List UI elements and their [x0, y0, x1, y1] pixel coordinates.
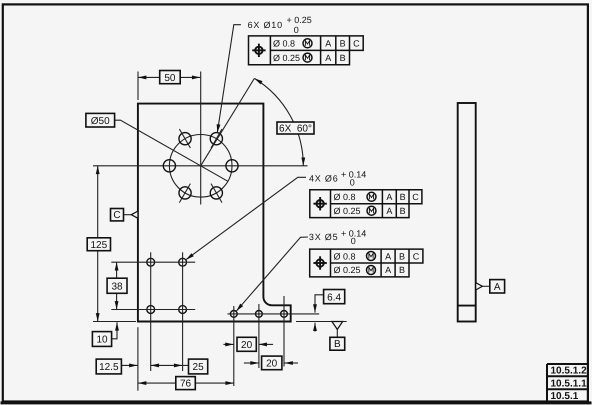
dimension 25 [151, 364, 183, 366]
svg-text:20: 20 [266, 359, 278, 370]
svg-text:76: 76 [180, 379, 192, 390]
3-hole horizontal centerline [228, 313, 320, 315]
svg-text:B: B [399, 251, 405, 261]
svg-text:0: 0 [350, 177, 355, 187]
slash 60deg hole [211, 129, 222, 148]
svg-text:125: 125 [90, 240, 107, 251]
svg-text:B: B [340, 39, 346, 49]
slash 300deg hole [211, 184, 222, 203]
svg-text:25: 25 [193, 362, 205, 373]
hole 240deg [179, 187, 191, 199]
FCF2 frame [310, 190, 422, 218]
svg-text:B: B [400, 192, 406, 202]
svg-text:Ø 0.8: Ø 0.8 [273, 39, 295, 49]
extension line left edge [137, 327, 139, 391]
svg-text:Ø50: Ø50 [91, 116, 110, 127]
4-hole row centerline bottom [111, 309, 195, 311]
3-hole column line 3 [283, 296, 285, 367]
3-hole column line 1 [233, 306, 235, 386]
svg-text:B: B [334, 339, 341, 350]
svg-text:A: A [386, 192, 392, 202]
svg-text:C: C [353, 39, 360, 49]
FCF2 leader [186, 177, 306, 259]
svg-text:A: A [386, 206, 392, 216]
3-hole column line 2 [258, 304, 260, 368]
FCF1 leader [217, 25, 241, 133]
side view plate [458, 103, 476, 322]
svg-text:12.5: 12.5 [99, 362, 119, 373]
hole 60deg [210, 133, 222, 145]
svg-text:A: A [385, 265, 391, 275]
svg-text:Ø 0.25: Ø 0.25 [273, 53, 300, 63]
svg-text:B: B [399, 265, 405, 275]
svg-text:38: 38 [111, 282, 123, 293]
svg-text:50: 50 [164, 73, 176, 84]
svg-text:B: B [400, 206, 406, 216]
svg-text:A: A [325, 53, 331, 63]
svg-text:+ 0.25: + 0.25 [287, 15, 312, 25]
dimension 38 [116, 262, 118, 309]
svg-text:C: C [413, 251, 420, 261]
angular dimension 6X 60 [201, 79, 255, 166]
svg-text:6X 60°: 6X 60° [279, 123, 312, 134]
svg-text:10.5.1: 10.5.1 [551, 391, 579, 402]
FCF3 frame [310, 249, 423, 277]
datum B [332, 322, 343, 330]
svg-text:Ø 0.25: Ø 0.25 [334, 265, 361, 275]
svg-text:20: 20 [241, 340, 253, 351]
slash 120deg hole [179, 129, 190, 148]
dimension 20 second [244, 362, 259, 364]
dimension 50 [137, 72, 139, 101]
svg-text:A: A [325, 39, 331, 49]
svg-text:A: A [385, 251, 391, 261]
svg-text:C: C [412, 192, 419, 202]
svg-text:0: 0 [351, 236, 356, 246]
bolt circle Ø50 [169, 135, 232, 198]
FCF3 position symbol [313, 256, 326, 269]
svg-text:6X Ø10: 6X Ø10 [248, 20, 283, 30]
vertical centerline [200, 72, 202, 205]
dimension 12.5 [121, 364, 137, 366]
datum A [476, 283, 483, 290]
svg-text:A: A [494, 282, 501, 293]
4-hole row centerline top [111, 261, 195, 263]
svg-text:Ø 0.25: Ø 0.25 [334, 206, 361, 216]
bottom edge right extension [296, 321, 347, 323]
hole 300deg [210, 187, 222, 199]
dimension 10 [112, 322, 117, 339]
FCF2 position symbol [313, 197, 326, 210]
part outline front view [138, 104, 291, 322]
svg-text:Ø 0.8: Ø 0.8 [334, 251, 356, 261]
3-hole pattern [230, 311, 237, 318]
svg-text:10: 10 [96, 335, 108, 346]
dimension 6.4 [315, 295, 324, 313]
4-hole column centerline right [182, 252, 184, 371]
hole 120deg [179, 133, 191, 145]
side view step line [458, 305, 476, 307]
FCF3 leader [236, 237, 308, 311]
svg-text:3X Ø5: 3X Ø5 [309, 232, 339, 242]
revision table [547, 364, 588, 402]
svg-text:Ø 0.8: Ø 0.8 [334, 192, 356, 202]
svg-text:0: 0 [294, 25, 299, 35]
FCF1 position symbol [252, 44, 265, 57]
4-hole column centerline left [150, 252, 152, 371]
4-hole pattern [147, 258, 155, 266]
svg-text:B: B [340, 53, 346, 63]
hole 0deg [226, 160, 238, 172]
dimension 125 [97, 166, 99, 322]
svg-text:10.5.1.2: 10.5.1.2 [551, 366, 588, 377]
label Ø50 [115, 120, 228, 181]
horizontal centerline [93, 165, 308, 167]
hole 180deg [163, 160, 175, 172]
FCF1 frame [249, 36, 364, 65]
svg-text:10.5.1.1: 10.5.1.1 [551, 378, 588, 389]
svg-text:C: C [113, 210, 120, 221]
slash 240deg hole [179, 184, 190, 203]
dimension 20 first [223, 343, 233, 345]
svg-text:4X Ø6: 4X Ø6 [309, 173, 339, 183]
svg-text:6.4: 6.4 [327, 292, 341, 303]
datum C [131, 211, 138, 218]
dimension 76 [138, 382, 234, 384]
